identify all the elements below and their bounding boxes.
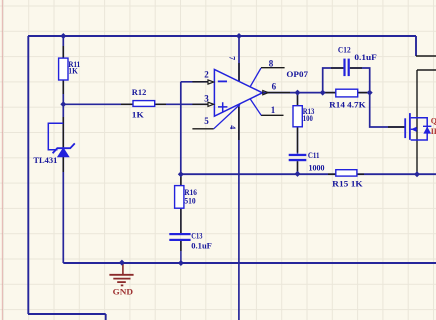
resistor R15 [332, 170, 363, 189]
pin number 1 [271, 105, 276, 115]
svg-text:1K: 1K [132, 111, 145, 120]
capacitor C13 [169, 232, 212, 251]
pin R14 left [324, 92, 336, 94]
wire op-amp pin 7 [238, 36, 240, 82]
pin R14 right [358, 92, 370, 94]
wire R16 C13 branch [180, 174, 182, 263]
svg-text:R15 1K: R15 1K [332, 180, 363, 189]
wire op-amp pin 4 down [238, 105, 240, 320]
pin number 3 [204, 93, 209, 103]
svg-text:IR: IR [431, 127, 436, 136]
svg-text:TL431: TL431 [33, 156, 57, 165]
pin R16 bottom to C13 [180, 208, 182, 222]
pin R16 top [180, 175, 182, 186]
wire output row [263, 92, 370, 94]
capacitor C12 [338, 46, 377, 76]
svg-text:0.1uF: 0.1uF [191, 242, 212, 251]
pin op-amp 3 [192, 103, 208, 105]
svg-text:1000: 1000 [309, 163, 325, 172]
junction R11 bottom node [60, 101, 66, 107]
pin op-amp 8 [261, 67, 285, 69]
pin op-amp 1 [261, 114, 284, 116]
transistor Q1 MOSFET [405, 113, 436, 140]
pin upper right stub [416, 55, 436, 57]
pin number 8 [269, 58, 274, 68]
pin R11 bottom [62, 80, 64, 94]
wire gate branch [370, 93, 405, 127]
TL431 U1 [33, 123, 74, 165]
svg-text:6: 6 [272, 82, 277, 92]
wire bottom exit stub [105, 314, 107, 320]
svg-text:R12: R12 [132, 88, 147, 97]
pin MOSFET drain-source vertical [416, 70, 418, 174]
svg-text:2: 2 [204, 70, 209, 80]
pin R12 left [121, 103, 133, 105]
wire TL431 branch vertical [62, 104, 64, 263]
wire inverting feedback vertical [180, 82, 182, 174]
junction C11 feedback [295, 171, 301, 177]
pin number 5 [204, 116, 209, 126]
pin TL431 cathode [62, 117, 64, 147]
pin upper right return stub [417, 69, 436, 71]
junction R14 gate node [367, 90, 373, 96]
svg-text:OP07: OP07 [286, 70, 308, 79]
junction ground symbol [119, 260, 125, 266]
pin R11 top [62, 46, 64, 58]
svg-text:1K: 1K [68, 66, 78, 75]
svg-text:0.1uF: 0.1uF [354, 53, 377, 62]
pin op-amp 2 [192, 81, 208, 83]
pin number 6 [272, 82, 277, 92]
wire drain top [415, 36, 417, 56]
op-amp U2 OP07 [208, 68, 308, 129]
pin R15 left [328, 173, 336, 175]
pin R13 bottom [297, 127, 299, 153]
wire top bus [28, 35, 416, 37]
svg-text:100: 100 [303, 114, 313, 123]
svg-text:3: 3 [204, 93, 209, 103]
pin C12 right [350, 67, 362, 69]
svg-text:C13: C13 [191, 232, 202, 241]
svg-text:Q1: Q1 [431, 117, 436, 126]
pin C13 bottom [180, 241, 182, 251]
junction R11 top bus [60, 33, 66, 39]
resistor R14 [329, 89, 366, 110]
wire R13 C11 branch [297, 93, 299, 175]
pin op-amp 4 [238, 107, 240, 140]
pin C12 left [331, 67, 343, 69]
junction output C12 [320, 90, 326, 96]
pin op-amp 7 [238, 63, 240, 82]
ground [109, 263, 133, 297]
pin op-amp 5 [192, 128, 213, 130]
svg-text:4: 4 [228, 125, 237, 129]
wire pin 2 stub [181, 81, 209, 83]
resistor R12 [132, 88, 155, 120]
wire left vertical rail [27, 36, 29, 314]
svg-text:5: 5 [204, 116, 209, 126]
pin R13 top [297, 94, 299, 106]
pin number 4 [228, 125, 237, 129]
pin number 7 [228, 56, 237, 60]
pin C13 top [180, 222, 182, 233]
wire C12 loop [323, 68, 370, 93]
wire ground bus [63, 262, 436, 264]
pin TL431 anode [62, 157, 64, 172]
junction source R15 node [414, 171, 420, 177]
junction C13 ground bus [178, 260, 184, 266]
sheet border line [1, 0, 3, 320]
pin R12 right [155, 103, 166, 105]
svg-text:1: 1 [271, 105, 276, 115]
wire bottom-left bus [28, 313, 106, 315]
svg-text:7: 7 [228, 56, 237, 60]
svg-text:C11: C11 [308, 151, 320, 160]
wire R11 branch [62, 36, 64, 104]
svg-text:510: 510 [184, 197, 195, 206]
pin R15 right [357, 173, 364, 175]
pin C11 bottom [297, 161, 299, 172]
resistor R13 [293, 106, 314, 127]
svg-text:R14 4.7K: R14 4.7K [329, 101, 366, 110]
svg-text:8: 8 [269, 58, 274, 68]
pin number 2 [204, 70, 209, 80]
wire R12 row to pin 3 [63, 103, 208, 105]
svg-text:C12: C12 [338, 46, 351, 55]
svg-text:GND: GND [113, 287, 133, 297]
junction output R13 [295, 90, 301, 96]
pin MOSFET gate [388, 126, 405, 128]
wire feedback row [181, 173, 436, 175]
resistor R16 [175, 186, 197, 209]
junction feedback node [178, 171, 184, 177]
capacitor C11 [289, 151, 325, 172]
junction pin 7 bus [236, 33, 242, 39]
resistor R11 [59, 58, 81, 80]
pin op-amp 6 [268, 92, 291, 94]
